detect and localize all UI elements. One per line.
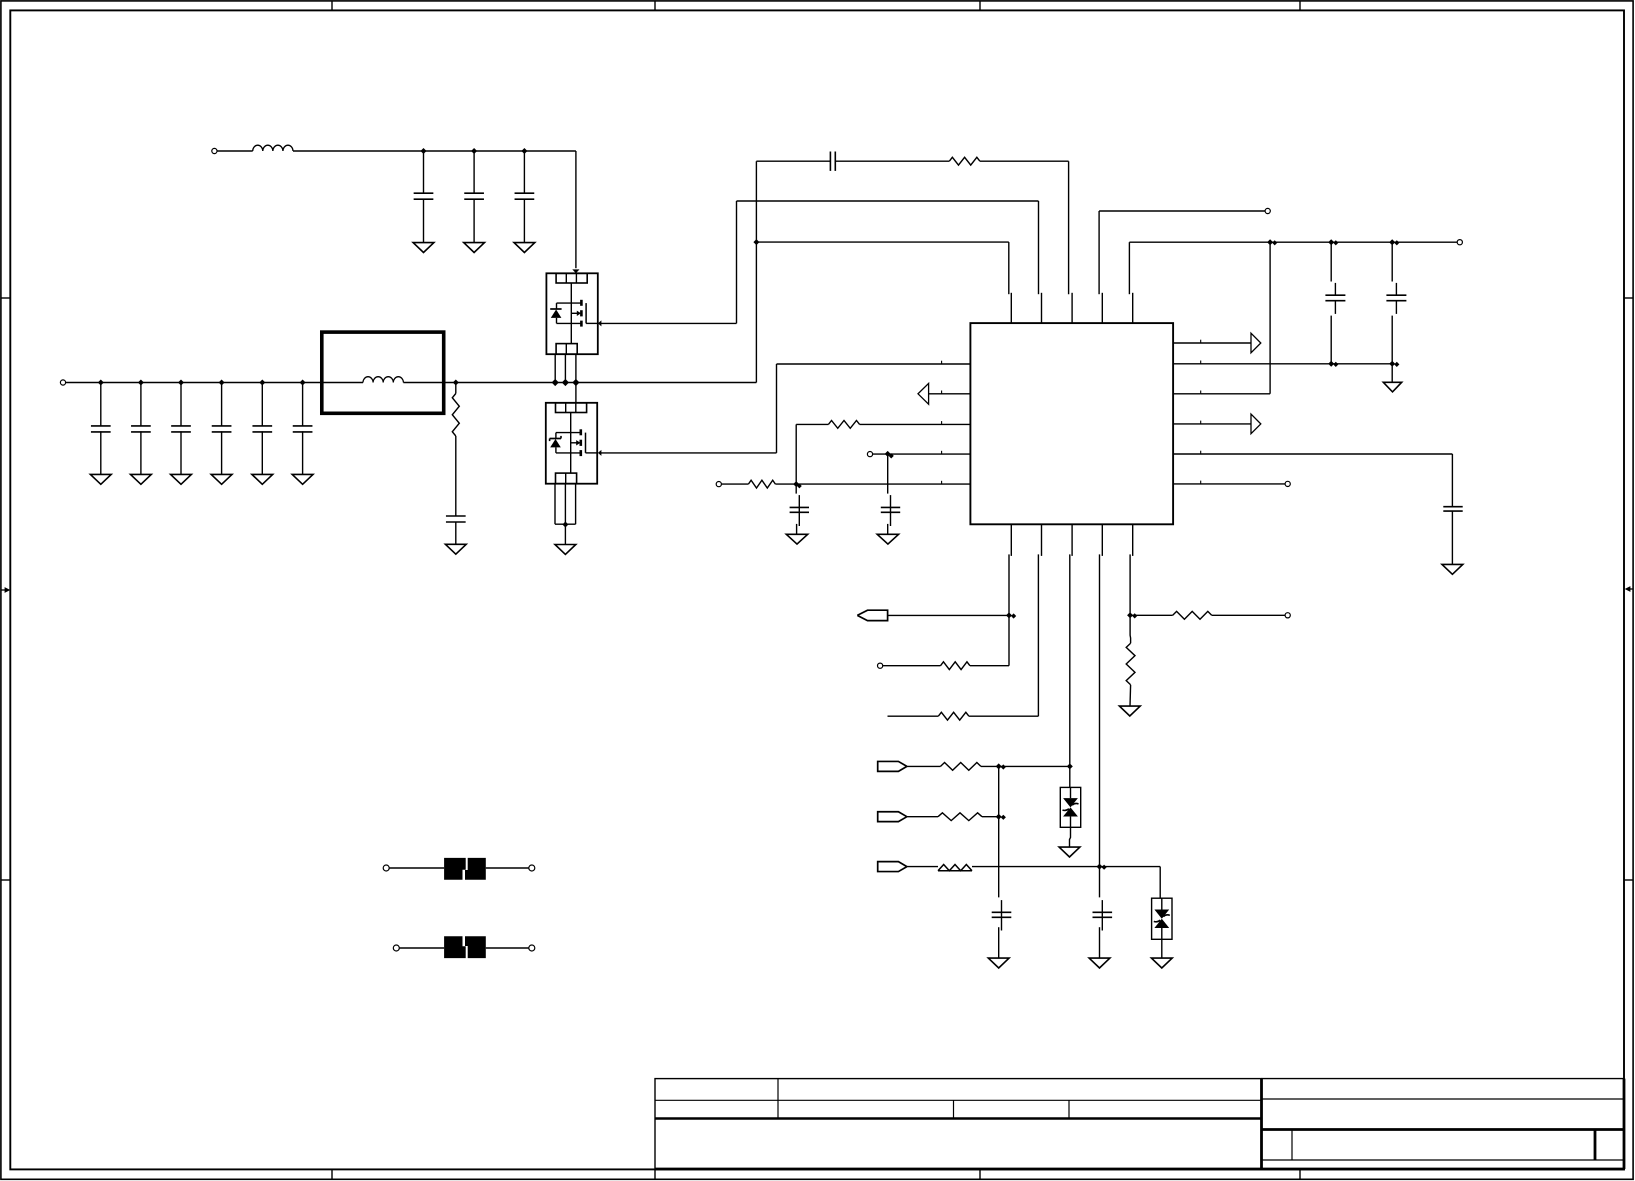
title block right section divider [1260, 1079, 1263, 1169]
node [572, 379, 579, 386]
wire [907, 765, 941, 767]
ground [90, 474, 111, 484]
ground [1383, 382, 1401, 392]
title block cell divider [777, 1079, 779, 1119]
TVS diode D1 [1060, 787, 1080, 827]
wire [1451, 454, 1453, 507]
node [1328, 239, 1338, 245]
port P7 [716, 482, 721, 487]
wire [1069, 161, 1073, 323]
wire [972, 866, 1160, 868]
frame zone tick top [979, 1, 981, 10]
wire [403, 382, 756, 384]
wire [756, 241, 1008, 243]
flag connector [878, 761, 907, 771]
resistor R11 [1126, 643, 1135, 685]
capacitor C15 [1443, 507, 1462, 565]
transistor Q2 [546, 403, 597, 484]
wire [1099, 210, 1265, 212]
node [996, 814, 1006, 820]
wire [1173, 481, 1285, 484]
inductor L1 [253, 145, 293, 151]
wire [1070, 827, 1071, 847]
node [453, 380, 459, 386]
node [1389, 361, 1399, 367]
node [1097, 864, 1107, 870]
wire [564, 484, 566, 525]
wire [776, 364, 778, 453]
wire [929, 391, 971, 394]
wire [564, 354, 566, 382]
node [138, 380, 144, 386]
wire [1159, 867, 1161, 899]
wire [1039, 201, 1042, 323]
port P8 [878, 663, 883, 668]
wire [756, 160, 830, 162]
ground [514, 243, 535, 253]
title block outline left section [655, 1079, 1262, 1169]
ground [252, 474, 273, 484]
wire [981, 765, 1070, 767]
signal arrow [1251, 333, 1261, 353]
wire [1212, 614, 1285, 616]
wire [1173, 421, 1251, 424]
ground [988, 958, 1009, 968]
resistor R9 [938, 865, 972, 871]
title block bottom edge [655, 1168, 1625, 1171]
wire [1038, 524, 1041, 716]
resistor R7 [941, 763, 981, 771]
node [885, 451, 894, 459]
IC U1 [970, 323, 1173, 524]
frame zone tick right [1624, 297, 1633, 299]
wire [796, 423, 828, 425]
ground [1089, 958, 1110, 968]
resistor R10 [1173, 611, 1212, 619]
wire [1070, 524, 1072, 787]
frame zone tick left [1, 297, 10, 299]
title block thick row line [655, 1117, 1262, 1120]
title block right row line [1262, 1098, 1625, 1100]
node [753, 239, 759, 245]
capacitor C9 [293, 383, 313, 475]
title block right edge [1623, 1079, 1626, 1169]
port P2 [60, 380, 65, 385]
port P9 [1285, 613, 1290, 618]
wire [1130, 614, 1173, 616]
node [259, 380, 265, 386]
wire [600, 322, 737, 324]
capacitor C4 [91, 383, 111, 475]
title block right thick cell divider [1594, 1130, 1597, 1161]
capacitor C3 [515, 151, 535, 243]
ground [786, 534, 807, 544]
frame center arrow left [1, 587, 10, 593]
wire [755, 161, 757, 382]
wire [1269, 242, 1271, 394]
resistor R6 [938, 712, 969, 720]
frame zone tick bottom [654, 1169, 656, 1179]
wire [1099, 211, 1102, 323]
wire [575, 354, 577, 382]
ground [171, 474, 192, 484]
capacitor C5 [131, 383, 151, 475]
wire [1100, 524, 1103, 897]
title block right row line [1262, 1159, 1625, 1161]
flag connector [857, 610, 887, 620]
node [1267, 239, 1277, 245]
title block cell divider [953, 1100, 955, 1118]
capacitor C1 [414, 151, 434, 243]
node [562, 379, 569, 386]
wire [600, 452, 777, 454]
node [521, 148, 527, 154]
node [996, 763, 1006, 769]
wire [293, 150, 576, 152]
node [1127, 612, 1137, 618]
wire [998, 766, 1000, 897]
node [1328, 361, 1338, 367]
port P5 [1285, 481, 1290, 486]
resistor R5 [941, 662, 970, 670]
wire [1173, 451, 1452, 454]
wire [1173, 361, 1392, 364]
wire [970, 665, 1009, 667]
ground [445, 544, 466, 554]
node [421, 148, 427, 154]
wire [575, 484, 577, 525]
wire [66, 382, 363, 384]
wire [217, 150, 253, 152]
wire [795, 424, 797, 484]
gate arrow Q1 [598, 320, 602, 326]
wire [1129, 615, 1132, 643]
wire [564, 524, 566, 544]
capacitor C2 [464, 151, 484, 243]
wire [575, 383, 577, 403]
wire [1173, 391, 1201, 394]
ground [211, 474, 232, 484]
capacitor C18 [446, 516, 466, 544]
node [219, 380, 225, 386]
node [552, 379, 559, 386]
frame zone tick top [654, 1, 656, 10]
capacitor C12 [1386, 242, 1406, 364]
node [1006, 612, 1016, 618]
resistor R4 [748, 480, 775, 488]
wire [980, 160, 1069, 162]
wire [1130, 524, 1133, 615]
frame zone tick bottom [979, 1169, 981, 1179]
frame zone tick left [1, 879, 10, 881]
wire [1173, 340, 1251, 343]
inductor L2 [363, 377, 403, 383]
node [178, 380, 184, 386]
port P1 [212, 148, 217, 153]
wire [888, 614, 1009, 616]
ground [464, 243, 485, 253]
capacitor C10 [830, 152, 835, 171]
signal arrow [1251, 414, 1261, 434]
ground [1151, 958, 1172, 968]
jumper J2 [393, 936, 535, 958]
wire [883, 665, 941, 667]
wire [1129, 242, 1132, 323]
wire [907, 866, 938, 868]
frame center arrow right [1625, 586, 1633, 592]
wire [887, 454, 889, 494]
frame zone tick bottom [331, 1169, 333, 1179]
wire [1009, 242, 1012, 323]
wire [554, 354, 556, 382]
wire [1129, 241, 1457, 243]
resistor R1 [452, 383, 459, 437]
node [98, 380, 104, 386]
capacitor C16 [992, 900, 1012, 958]
TVS diode D2 [1152, 898, 1172, 939]
capacitor C8 [252, 383, 272, 475]
frame zone tick right [1624, 879, 1633, 881]
capacitor C13 [881, 495, 900, 534]
title block cell divider [1068, 1100, 1070, 1118]
transistor Q1 [546, 273, 597, 354]
wire [775, 481, 970, 484]
signal arrow [918, 383, 929, 404]
title block row line [655, 1099, 1262, 1101]
node [1389, 239, 1399, 245]
ground [555, 545, 576, 555]
wire [1201, 393, 1270, 395]
wire [1009, 524, 1011, 665]
port P4 [1457, 240, 1462, 245]
capacitor C7 [212, 383, 232, 475]
wire [736, 201, 738, 323]
ground [413, 243, 434, 253]
node [300, 380, 306, 386]
port P3 [1265, 208, 1270, 213]
title block right thick row line [1262, 1128, 1625, 1131]
wire [860, 421, 971, 424]
gate arrow Q2 [598, 450, 602, 456]
filter module FB1 [322, 332, 444, 413]
ground [1059, 847, 1080, 857]
port P6 [867, 452, 872, 457]
flag connector [878, 812, 907, 822]
ground [131, 474, 152, 484]
frame zone tick top [1299, 1, 1301, 10]
wire [969, 715, 1039, 717]
node [471, 148, 477, 154]
wire [835, 160, 949, 162]
frame zone tick top [331, 1, 333, 10]
wire [455, 436, 457, 516]
capacitor C17 [1093, 900, 1113, 958]
title block right section top [1262, 1078, 1625, 1080]
wire [888, 715, 939, 717]
wire [873, 451, 971, 454]
node [562, 522, 568, 528]
ground [1442, 564, 1463, 574]
wire [1161, 939, 1163, 958]
ground [877, 534, 898, 544]
resistor R2 [949, 157, 980, 165]
wire [795, 484, 797, 494]
wire [777, 361, 971, 364]
wire [907, 816, 938, 818]
capacitor C14 [790, 495, 809, 534]
node [793, 481, 802, 488]
title block right cell divider [1291, 1130, 1293, 1161]
wire [737, 200, 1039, 202]
wire [1129, 685, 1132, 706]
capacitor C11 [1325, 242, 1345, 364]
resistor R3 [828, 421, 859, 429]
wire [982, 816, 999, 818]
ground [1119, 706, 1140, 716]
flag connector [878, 862, 907, 872]
wire [1391, 364, 1393, 383]
wire [572, 151, 579, 273]
capacitor C6 [171, 383, 191, 475]
wire [554, 484, 556, 525]
node [1067, 763, 1073, 769]
ground [292, 474, 313, 484]
jumper J1 [383, 858, 535, 880]
resistor R8 [938, 813, 982, 821]
wire [555, 523, 576, 525]
frame zone tick bottom [1299, 1169, 1301, 1179]
wire [721, 483, 748, 485]
